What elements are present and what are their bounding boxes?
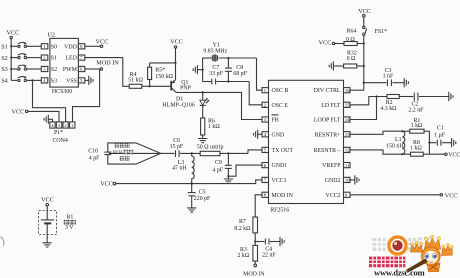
svg-text:DIV CTRL: DIV CTRL [314,88,341,94]
capacitor C4 22nF [255,239,277,259]
svg-text:VCC1: VCC1 [272,178,287,184]
svg-text:P1*: P1* [54,130,63,136]
power VCC terminal to P1 pin 3 [12,109,28,116]
svg-text:HLMP–Q106: HLMP–Q106 [162,103,194,109]
RF2516 pin 2 (OSC E) [262,102,288,109]
U2 pin 5 (VSS) [66,78,85,85]
power VCC (R64) [319,40,335,47]
svg-text:GND1: GND1 [272,163,288,169]
U2 pin 1 (S0) [41,44,57,51]
resistor R1 1k [402,118,429,133]
RF2516 pin 12 (RESNTR &#8211;) [313,147,350,154]
ground (R32) [329,61,336,70]
switch S4 [1,76,41,85]
U2 pin 2 (S1) [41,55,57,62]
svg-text:C2: C2 [412,101,419,107]
svg-text:150 kΩ: 150 kΩ [155,74,173,80]
svg-text:4.3 kΩ: 4.3 kΩ [380,106,397,112]
wire MOD IN pin 8 to R7 [255,195,262,217]
LED D1 HLMP-Q106 [162,92,209,108]
svg-text:HCS300: HCS300 [52,89,72,95]
svg-text:VCC: VCC [358,8,371,15]
junction L1 top [401,130,403,132]
U2 pin 4 (S3) [41,78,57,85]
ground (C9) [224,176,233,183]
svg-text:15 pF: 15 pF [170,144,184,150]
svg-text:S2: S2 [1,55,8,62]
svg-text:GND2: GND2 [325,178,341,184]
resistor R6 1k [201,106,221,136]
svg-text:VCC: VCC [100,180,113,187]
svg-text:13: 13 [345,132,350,137]
svg-text:MOD IN: MOD IN [243,271,265,277]
svg-text:S1: S1 [51,56,57,62]
junction VCC line [174,62,176,64]
svg-text:PNP: PNP [180,85,192,91]
label antenna chinese line1 [115,143,130,147]
capacitor C5 220pF [188,184,211,206]
svg-text:150 nH: 150 nH [386,144,404,150]
svg-text:C8: C8 [236,65,243,71]
svg-text:1 nF: 1 nF [383,74,394,80]
resistor R8 1k [402,140,444,156]
svg-text:16: 16 [345,88,350,93]
svg-text:R64: R64 [347,29,357,35]
svg-text:VCC: VCC [41,197,54,204]
svg-text:S3: S3 [51,78,57,84]
wire RESNTR- pin12 [350,150,402,154]
node MOD IN (bottom terminal) [243,264,265,277]
svg-text:FB: FB [272,118,279,124]
svg-text:15: 15 [345,103,350,108]
inductor L3 47nH [172,153,194,183]
wire S4 line down to P1 pin 2 [33,80,66,122]
svg-text:1 kΩ: 1 kΩ [208,124,220,130]
junction R5 bottom / base [149,85,151,87]
power VCC (VCC2) [440,192,457,199]
svg-text:D1: D1 [176,96,183,102]
RF2516 pin 9 (VCC2) [325,192,350,199]
U2 pin 6 (PWM) [63,66,85,73]
battery B1 3V [39,206,74,240]
svg-text:12: 12 [345,148,350,153]
wire VCC to FS1 [363,17,365,26]
resistor R4 51k [128,72,143,88]
capacitor C6 15pF [161,138,201,157]
svg-text:VCC: VCC [448,152,460,158]
RF2516 pin 15 (LD FLT) [321,102,350,109]
resistor R32 0 ohm [336,50,364,68]
microstrip 50 ohm [197,145,248,156]
RF2516 pin 14 (LOOP FLT) [314,117,350,124]
power VCC (TX bias rail) [100,180,116,187]
capacitor C2 2.2nF [408,93,446,114]
junction R32 / bus [363,65,365,67]
svg-text:LD FLT: LD FLT [321,103,341,109]
wire C9 node to GND1 pin 6 [228,165,262,176]
svg-text:PWM: PWM [63,67,78,73]
capacitor C10 4pF [88,149,100,162]
svg-text:LED: LED [65,56,77,62]
switch S3 [1,65,41,74]
svg-text:3 V: 3 V [65,225,74,231]
svg-text:2.2 nF: 2.2 nF [408,108,424,114]
svg-text:1 kΩ: 1 kΩ [411,123,423,129]
svg-text:MOD IN: MOD IN [272,193,294,199]
svg-text:4 pF: 4 pF [212,167,223,173]
RF2516 pin 10 (GND2) [325,177,350,184]
svg-text:PCB: PCB [113,151,123,156]
svg-text:22 nF: 22 nF [262,252,276,258]
svg-text:OSC E: OSC E [272,103,289,109]
junction C8 top [227,57,229,59]
junction C9 top [227,152,229,154]
svg-text:VCC: VCC [319,40,332,47]
svg-text:33 pF: 33 pF [209,71,223,77]
power VCC (Q1 emitter) [170,39,183,80]
resistor R3 2k [237,245,257,264]
transistor Q1 PNP [171,80,191,93]
ground at P1 pin 4 [44,115,52,124]
svg-text:VCC: VCC [7,30,20,37]
svg-text:1 μF: 1 μF [434,133,446,139]
svg-text:VCC: VCC [12,109,25,116]
capacitor C7 33pF [203,65,250,84]
wire FS1 to DIV CTRL vertical [363,36,365,91]
ground at U2 VSS pin 5 [85,76,93,85]
watermark magnifier [389,237,406,254]
svg-text:RESNTR –: RESNTR – [313,148,340,154]
switch S2 [1,53,41,62]
svg-text:www.dzsc.com: www.dzsc.com [374,268,426,278]
label antenna chinese line3 [120,156,130,160]
U2 pin 3 (S2) [41,66,57,73]
wire DIV CTRL pin16 [350,89,364,91]
svg-text:C6: C6 [173,138,180,144]
U2 pin 8 (VDD) [64,44,85,51]
ground below R6 [198,136,207,143]
svg-text:51 kΩ: 51 kΩ [128,78,143,84]
svg-text:B1: B1 [66,214,73,220]
svg-text:VCC: VCC [170,39,183,46]
svg-text:TX OUT: TX OUT [272,148,294,154]
RF2516 pin 7 (VCC1) [262,177,287,184]
svg-text:LOOP FLT: LOOP FLT [314,118,341,124]
svg-text:14: 14 [345,117,350,122]
wire VCC terminal to P1 pin 3 [28,111,59,122]
svg-text:C7: C7 [212,65,219,71]
power VCC (RESNTR- rail) [445,152,460,158]
wire Q1 collector to FB pin 3 [176,92,262,119]
svg-text:L1: L1 [395,137,402,143]
junction C1 tap [428,142,430,144]
svg-text:S3: S3 [1,66,8,73]
antenna (PCB trace) with chinese note [104,143,160,164]
power VCC (battery) [41,197,54,207]
svg-text:1 kΩ: 1 kΩ [410,146,422,152]
power VCC (switch bus) [7,30,20,39]
svg-text:4 pF: 4 pF [89,156,100,162]
junction L3 top [191,152,193,154]
ground at RF2516 GND pin 4 [253,130,262,139]
junction L1 bottom [401,153,403,155]
svg-text:C1: C1 [437,125,444,131]
RF2516 pin 6 (GND1) [262,163,287,170]
wire R1/R8 right vertical [428,131,430,154]
svg-text:R7: R7 [239,219,246,225]
junction R7/R3/C4 [254,240,256,242]
svg-text:VCC2: VCC2 [325,193,340,199]
wire crystal to OSC B pin 1 [257,58,263,90]
RF2516 pin 11 (VREFP) [322,163,350,170]
wire C7 rail to OSC E pin 2 [249,82,262,105]
ground below B1 [43,240,52,247]
svg-text:50 Ω ustrip: 50 Ω ustrip [197,145,224,151]
svg-text:220 pF: 220 pF [194,196,211,202]
wire MOD IN node down to P1 pin 1 [73,69,100,122]
resistor R5 150k [148,63,174,86]
wire LOOP FLT pin14 [350,97,377,120]
label B1 battery chinese [64,220,76,231]
watermark pic chars [408,237,431,251]
wire U2 LED pin 7 to R4 [85,58,129,87]
svg-text:S1: S1 [1,44,8,51]
IC U2 HCS300 body [47,32,78,95]
svg-text:47 nH: 47 nH [172,166,187,172]
svg-text:CON4: CON4 [53,138,68,144]
svg-text:GND: GND [272,132,286,138]
node MOD IN (terminal at U2 PWM pin 6) [85,59,119,70]
junction pin14 tap [375,95,377,97]
svg-text:RESNTR+: RESNTR+ [315,132,342,138]
wire crystal left vertical [202,58,204,82]
switch S1 [1,42,41,51]
capacitor C8 68pF [225,58,248,82]
ground (C5) [187,205,196,212]
junction C5 / L3 bottom [191,182,193,184]
connector P1 CON4 [50,122,75,144]
watermark find-IC text [373,238,386,251]
U2 pin 7 (LED) [65,55,84,62]
svg-text:68 pF: 68 pF [233,71,247,77]
svg-text:8.2 kΩ: 8.2 kΩ [234,226,251,232]
svg-text:VCC: VCC [445,192,458,199]
wire microstrip to TX OUT pin 5 [248,150,262,154]
wire R4 to Q1 base [142,85,171,87]
scan artifact bottom-left [1,237,4,246]
junction C8 bottom [227,80,229,82]
wire RESNTR+ pin13 [350,131,402,134]
svg-text:VSS: VSS [66,78,77,84]
junction crystal ground [202,69,204,71]
RF2516 pin 5 (TX OUT) [262,147,293,154]
ground (crystal net) [193,65,202,74]
svg-text:R5*: R5* [155,67,165,73]
svg-text:C5: C5 [199,190,206,196]
svg-text:OSC B: OSC B [272,88,289,94]
RF2516 pin 13 (RESNTR+) [315,132,351,139]
RF2516 pin 1 (OSC B) [262,88,288,95]
RF2516 pin 16 (DIV CTRL) [314,88,351,95]
RF2516 pin 4 (GND) [262,132,285,139]
svg-text:S0: S0 [51,44,57,50]
wire R5 top to VCC line [150,62,176,64]
ground (C2) [446,92,453,101]
svg-text:C9: C9 [215,160,222,166]
resistor R64 0 ohm [335,29,364,46]
svg-text:MOD IN: MOD IN [96,59,119,66]
ground (C1) [449,138,456,147]
svg-text:S4: S4 [1,78,8,85]
wire VCC2 pin9 [350,194,440,196]
wire VCC rail to VCC1 pin 7 [116,180,262,184]
svg-text:U2: U2 [47,32,55,39]
capacitor C3 1nF [364,68,402,86]
svg-text:11: 11 [345,163,350,168]
inductor L1 150nH [386,131,405,154]
capacitor C9 4pF [212,153,232,176]
svg-text:10: 10 [345,178,350,183]
wire LD FLT pin15 [350,97,387,105]
svg-text:C10: C10 [88,149,98,155]
svg-text:VREFP: VREFP [322,163,341,169]
junction C3 tap [363,82,365,84]
svg-text:2 kΩ: 2 kΩ [237,253,249,259]
ground at RF2516 GND2 pin 10 [350,175,359,184]
resistor R7 8.2k [234,217,257,245]
svg-text:S2: S2 [51,67,57,73]
svg-text:VCC: VCC [96,39,109,46]
resistor R2 4.3k [380,95,413,113]
wire VCC bus vertical [10,39,12,81]
watermark mascot [403,235,453,272]
svg-text:0 Ω: 0 Ω [346,37,355,43]
junction R64 / bus [363,42,365,44]
IC RF2516 body [269,80,344,213]
label antenna chinese line2 PCB [113,150,133,156]
svg-text:9.83 MHz: 9.83 MHz [203,49,227,55]
power VCC at U2 VDD pin 8 [85,39,109,48]
RF2516 pin 3 (FB) [262,115,279,124]
junction C9 bottom [227,175,229,177]
svg-text:FS1*: FS1* [375,29,387,35]
svg-text:VDD: VDD [64,44,78,50]
jumper FS1* [363,26,387,35]
capacitor C1 1uF [429,125,449,145]
junction S4 line to P1 pin 2 [31,79,33,81]
crystal Y1 9.83 MHz [203,43,257,62]
svg-text:0 Ω: 0 Ω [347,56,356,62]
power VCC (top right) [358,8,371,17]
ground (C3) [402,78,409,87]
watermark weiku red chars [369,257,405,268]
svg-text:RF2516: RF2516 [270,208,289,214]
ground (C4) [277,237,284,246]
junction collector / D1 [202,91,204,93]
RF2516 pin 8 (MOD IN) [262,192,294,199]
